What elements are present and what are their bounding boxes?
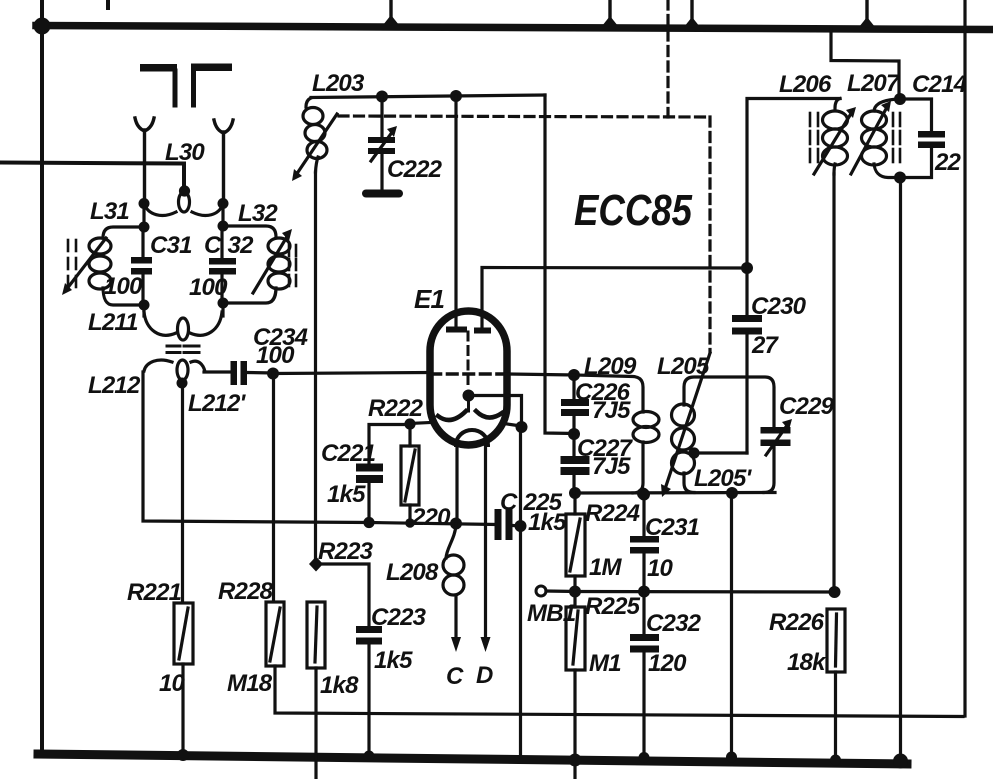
wire bottom bus xyxy=(38,754,907,764)
wire top bus xyxy=(36,26,993,30)
svg-text:R223: R223 xyxy=(318,538,374,565)
resistor R226 xyxy=(827,609,845,672)
svg-text:7J5: 7J5 xyxy=(592,453,631,480)
node L207 ground xyxy=(893,754,908,769)
node C231 top xyxy=(638,489,650,501)
wire L212' down to R221 xyxy=(181,383,184,603)
wire C232 top lead xyxy=(642,591,645,634)
wire screen line xyxy=(575,590,835,594)
core marks L31 xyxy=(68,240,76,287)
tube heater dome xyxy=(456,430,488,445)
svg-text:1k5: 1k5 xyxy=(374,647,413,674)
inductor L211 xyxy=(144,312,222,340)
node R222 top xyxy=(404,418,415,429)
svg-text:1M: 1M xyxy=(589,554,623,581)
node C232 ground xyxy=(639,752,650,763)
node R221 ground xyxy=(177,749,189,761)
svg-text:C31: C31 xyxy=(150,232,192,259)
wire L30 to L31 box xyxy=(142,203,145,227)
svg-text:C230: C230 xyxy=(751,293,807,320)
wire C232 bottom lead xyxy=(642,652,645,758)
inductor L31 xyxy=(89,227,144,305)
wire grid-leak vertical xyxy=(272,373,275,602)
node bus triangle 3 xyxy=(684,17,700,27)
connector fork left xyxy=(135,118,154,131)
wire C234 to grid node xyxy=(247,371,273,375)
node L31 bottom xyxy=(139,300,150,311)
svg-text:27: 27 xyxy=(751,332,780,359)
node tube shield xyxy=(463,390,475,402)
wire R226 bottom lead xyxy=(834,672,837,761)
wire heater D lead xyxy=(484,445,487,640)
resistor R224 xyxy=(566,514,585,576)
svg-text:L207: L207 xyxy=(847,70,901,97)
dashed gang line top vertical xyxy=(666,0,669,117)
wire top feed to L207 xyxy=(831,29,899,99)
wire C231 top lead xyxy=(642,495,645,536)
svg-text:C223: C223 xyxy=(371,604,427,631)
wire oscillator top line xyxy=(311,95,545,98)
wire stub top edge xyxy=(106,0,110,8)
svg-text:C229: C229 xyxy=(779,393,835,420)
tube anode plate 2 xyxy=(474,328,491,334)
inductor L207 xyxy=(862,99,900,178)
svg-text:22: 22 xyxy=(934,149,962,176)
svg-text:1k5: 1k5 xyxy=(528,509,567,536)
wire left rail xyxy=(40,0,44,752)
node anode1 top xyxy=(450,90,462,102)
capacitor C230 xyxy=(732,315,762,335)
inductor L205 xyxy=(672,99,841,493)
node top-left junction xyxy=(34,18,51,35)
node L205 tap xyxy=(688,447,699,458)
svg-text:R224: R224 xyxy=(585,500,640,527)
tube anode plate 1 xyxy=(446,327,467,333)
node divider top xyxy=(568,369,580,381)
svg-text:100: 100 xyxy=(104,273,143,300)
node R223 tap diamond xyxy=(309,557,323,572)
node R226 ground xyxy=(830,755,841,766)
arrow terminal D xyxy=(481,637,491,652)
arrow C229 trimmer xyxy=(766,419,792,455)
svg-text:220: 220 xyxy=(411,504,451,531)
node C231 bottom xyxy=(638,586,650,598)
wire B+ stub 1 xyxy=(389,0,392,24)
wire C214 bottom lead xyxy=(900,148,932,178)
wire anode tank bottom line xyxy=(575,491,775,495)
wire C226 top lead xyxy=(572,375,575,399)
svg-text:C: C xyxy=(446,663,464,690)
capacitor C32 xyxy=(209,258,236,275)
core marks L207 xyxy=(893,113,900,162)
inductor L206 xyxy=(823,99,848,175)
tube grid dashed bar xyxy=(431,372,508,376)
svg-text:C221: C221 xyxy=(321,440,376,467)
svg-text:10: 10 xyxy=(159,670,186,697)
wire R221 bottom lead xyxy=(181,664,184,756)
wire fork right stem xyxy=(222,132,225,204)
svg-text:18k: 18k xyxy=(787,649,827,676)
arrow L207 adjustable xyxy=(851,101,891,174)
wire osc to divider vertical xyxy=(545,95,574,434)
arrow C222 trimmer xyxy=(371,126,397,161)
wire shield out xyxy=(469,396,522,428)
wire L203 bottom long vertical xyxy=(314,172,317,558)
capacitor C227 xyxy=(561,456,590,475)
core marks L32 xyxy=(289,245,296,286)
svg-text:L211: L211 xyxy=(88,309,138,336)
wire C214 top lead xyxy=(900,99,932,131)
svg-text:R226: R226 xyxy=(769,609,825,636)
node L205 bottom xyxy=(726,487,738,499)
antenna dipole right bar xyxy=(191,64,232,72)
node bus triangle 4 xyxy=(859,17,875,27)
resistor R228 xyxy=(266,602,284,666)
svg-text:C232: C232 xyxy=(646,610,702,637)
antenna dipole right lead xyxy=(191,71,196,105)
inductor L208 xyxy=(443,524,464,595)
wire C31 top lead xyxy=(141,227,144,257)
svg-text:L203: L203 xyxy=(312,70,365,97)
dashed gang line right vertical xyxy=(708,117,711,352)
wire R222 bottom lead xyxy=(408,505,411,523)
svg-text:L31: L31 xyxy=(90,198,129,225)
node L207 bottom xyxy=(894,172,906,184)
svg-text:R221: R221 xyxy=(127,579,182,606)
wire C222 bottom lead xyxy=(380,154,383,190)
node grid1 xyxy=(267,368,279,380)
node bus triangle 1 xyxy=(383,15,399,25)
wire C231 bottom lead xyxy=(642,553,645,591)
wire C32 bottom lead xyxy=(220,274,223,303)
wire C230 tap xyxy=(694,451,747,454)
wire R222 top lead xyxy=(408,424,411,446)
node L205 ground xyxy=(726,752,737,763)
connector fork right xyxy=(214,120,233,133)
svg-text:R228: R228 xyxy=(218,578,274,605)
node feed/L30 xyxy=(179,185,190,196)
node cathode2 xyxy=(516,421,528,433)
capacitor C222 xyxy=(368,137,395,154)
svg-text:E1: E1 xyxy=(414,284,445,314)
node C225 right xyxy=(515,520,527,532)
capacitor C223 xyxy=(356,626,382,645)
node C230 top xyxy=(741,262,753,274)
svg-text:L32: L32 xyxy=(238,200,278,227)
node C223 ground xyxy=(364,751,375,762)
svg-text:L30: L30 xyxy=(165,139,205,166)
wire cathode line xyxy=(369,523,496,525)
capacitor C221 xyxy=(356,464,383,484)
wire C225 to node xyxy=(513,524,520,528)
arrow L203 adjustable xyxy=(292,114,337,181)
inductor L30 xyxy=(144,192,223,215)
wire heater C lead xyxy=(455,445,458,524)
node C221 bottom xyxy=(363,517,374,528)
ground C222 xyxy=(366,190,399,198)
svg-text:M18: M18 xyxy=(227,670,273,697)
node L32 bottom xyxy=(218,298,229,309)
svg-text:7J5: 7J5 xyxy=(592,397,631,424)
inductor L212 xyxy=(144,360,205,380)
wire grid1 to tube xyxy=(273,373,429,374)
wire L30 to L32 box xyxy=(221,203,224,226)
resistor R225 xyxy=(566,607,585,670)
resistor R221 xyxy=(174,603,193,664)
capacitor C214 xyxy=(918,131,945,148)
wire L208 bottom / arrow C lead xyxy=(454,595,457,640)
wire R225 leads xyxy=(573,591,576,607)
tube cathode 2 xyxy=(476,411,502,418)
wire C32 top lead xyxy=(220,226,223,258)
wire L206 bottom to R226 xyxy=(832,174,835,592)
dashed gang line horizontal xyxy=(339,116,710,117)
resistor R222 xyxy=(401,446,419,505)
node C222 top xyxy=(376,91,388,103)
wire fork left stem xyxy=(143,130,146,203)
capacitor C225 xyxy=(495,509,513,540)
svg-text:100: 100 xyxy=(189,274,228,301)
wire L31 box to L211 xyxy=(142,305,145,316)
wire anode1 lead xyxy=(454,96,457,327)
inductor L209 xyxy=(574,375,659,493)
svg-text:10: 10 xyxy=(647,555,674,582)
svg-text:1k5: 1k5 xyxy=(327,481,366,508)
capacitor C31 xyxy=(131,257,152,275)
wire C222 top lead xyxy=(380,96,383,137)
wire cathode1 out xyxy=(410,423,430,424)
capacitor C229 xyxy=(761,427,791,446)
wire R225 bottom lead xyxy=(573,670,576,779)
arrow L205 adjustable xyxy=(661,353,710,497)
arrow L32 adjustable xyxy=(253,229,292,293)
node divider mid xyxy=(568,428,580,440)
wire R223 bottom lead xyxy=(314,668,317,779)
svg-text:120: 120 xyxy=(648,650,687,677)
inductor L32 xyxy=(223,226,290,303)
arrow L31 adjustable xyxy=(62,238,106,295)
node L207 top xyxy=(894,93,906,105)
svg-text:L205: L205 xyxy=(657,353,710,380)
svg-text:C222: C222 xyxy=(387,156,443,183)
antenna dipole left bar xyxy=(140,64,177,72)
wire C227 bottom lead xyxy=(572,475,575,493)
inductor L203 xyxy=(303,98,327,172)
wire B+ stub 2 xyxy=(608,0,611,25)
wire C223 bottom lead xyxy=(367,644,370,757)
wire B+ stub 4 xyxy=(865,0,868,26)
arrow L206 adjustable xyxy=(814,107,856,174)
resistor R223 xyxy=(307,602,325,668)
svg-text:L212': L212' xyxy=(188,390,247,417)
wire C221 bottom lead xyxy=(367,483,370,523)
arrow terminal C xyxy=(451,637,461,652)
capacitor C231 xyxy=(630,536,659,554)
tube E1 envelope xyxy=(430,311,507,445)
node L212' tap xyxy=(177,378,188,389)
node MB1 terminal xyxy=(536,586,546,596)
wire R228 bottom lead xyxy=(275,666,963,717)
node L208 top xyxy=(450,518,462,530)
svg-text:D: D xyxy=(476,662,493,689)
wire R224 bottom lead xyxy=(573,576,576,591)
node L30 right xyxy=(218,198,229,209)
wire R224 top lead xyxy=(573,493,576,514)
wire cathode2 down xyxy=(519,427,522,526)
svg-text:C32: C32 xyxy=(204,232,254,259)
wire L205 bottom to ground xyxy=(730,493,733,757)
svg-text:ECC85: ECC85 xyxy=(574,186,692,235)
wire C227 leads xyxy=(572,434,575,456)
wire C225 node to ground bus xyxy=(519,526,522,757)
svg-text:L212: L212 xyxy=(88,372,141,399)
wire L32 box to L211 xyxy=(221,303,224,316)
wire C230 bottom lead xyxy=(745,335,748,454)
node R222 bottom xyxy=(405,518,415,528)
node L209 bottom right xyxy=(637,488,649,500)
svg-text:C214: C214 xyxy=(912,71,967,98)
svg-text:1k8: 1k8 xyxy=(320,672,359,699)
node R225 ground xyxy=(569,754,582,767)
svg-text:100: 100 xyxy=(256,342,295,369)
node bus triangle 2 xyxy=(602,16,618,26)
svg-text:MB1: MB1 xyxy=(527,600,576,627)
svg-text:L206: L206 xyxy=(779,71,832,98)
capacitor C226 xyxy=(561,399,589,416)
antenna dipole left lead xyxy=(173,71,178,105)
node L30 left xyxy=(139,198,150,209)
tube cathode 1 xyxy=(438,411,466,420)
wire AGC right riser xyxy=(963,0,966,716)
svg-text:L205': L205' xyxy=(694,465,753,492)
wire B+ stub 3 xyxy=(690,0,693,26)
wire grid2 xyxy=(509,374,574,375)
node R224 bottom xyxy=(569,586,581,598)
svg-text:R225: R225 xyxy=(585,593,641,620)
svg-text:R222: R222 xyxy=(368,395,424,422)
core L211/L212 xyxy=(167,346,199,353)
svg-text:L208: L208 xyxy=(386,559,439,586)
node L32 top xyxy=(218,221,229,232)
wire C230 top lead xyxy=(745,268,748,315)
wire C226 bottom lead xyxy=(572,416,575,434)
wire L212 left vertical xyxy=(143,372,369,523)
wire L207 bottom to ground xyxy=(899,178,902,763)
wire MB1 to node xyxy=(546,589,575,593)
wire L212 right to C234 xyxy=(204,370,229,373)
capacitor C232 xyxy=(630,634,659,653)
svg-text:M1: M1 xyxy=(589,650,621,677)
tube shield dashed xyxy=(467,332,471,411)
node R226 top xyxy=(829,586,841,598)
wire tap to C223 xyxy=(321,564,369,626)
capacitor C234 xyxy=(231,361,248,385)
wire C31 bottom lead xyxy=(141,274,144,305)
svg-text:C231: C231 xyxy=(645,514,700,541)
wire antenna feed line xyxy=(0,163,184,192)
node L209 bottom left xyxy=(569,487,581,499)
wire anode2 lead xyxy=(482,268,747,329)
node L31 top xyxy=(139,222,150,233)
core marks L206 xyxy=(810,113,818,162)
wire cathode2 stub xyxy=(504,424,521,427)
svg-text:L209: L209 xyxy=(584,353,637,380)
wire C221 top lead xyxy=(369,425,410,464)
